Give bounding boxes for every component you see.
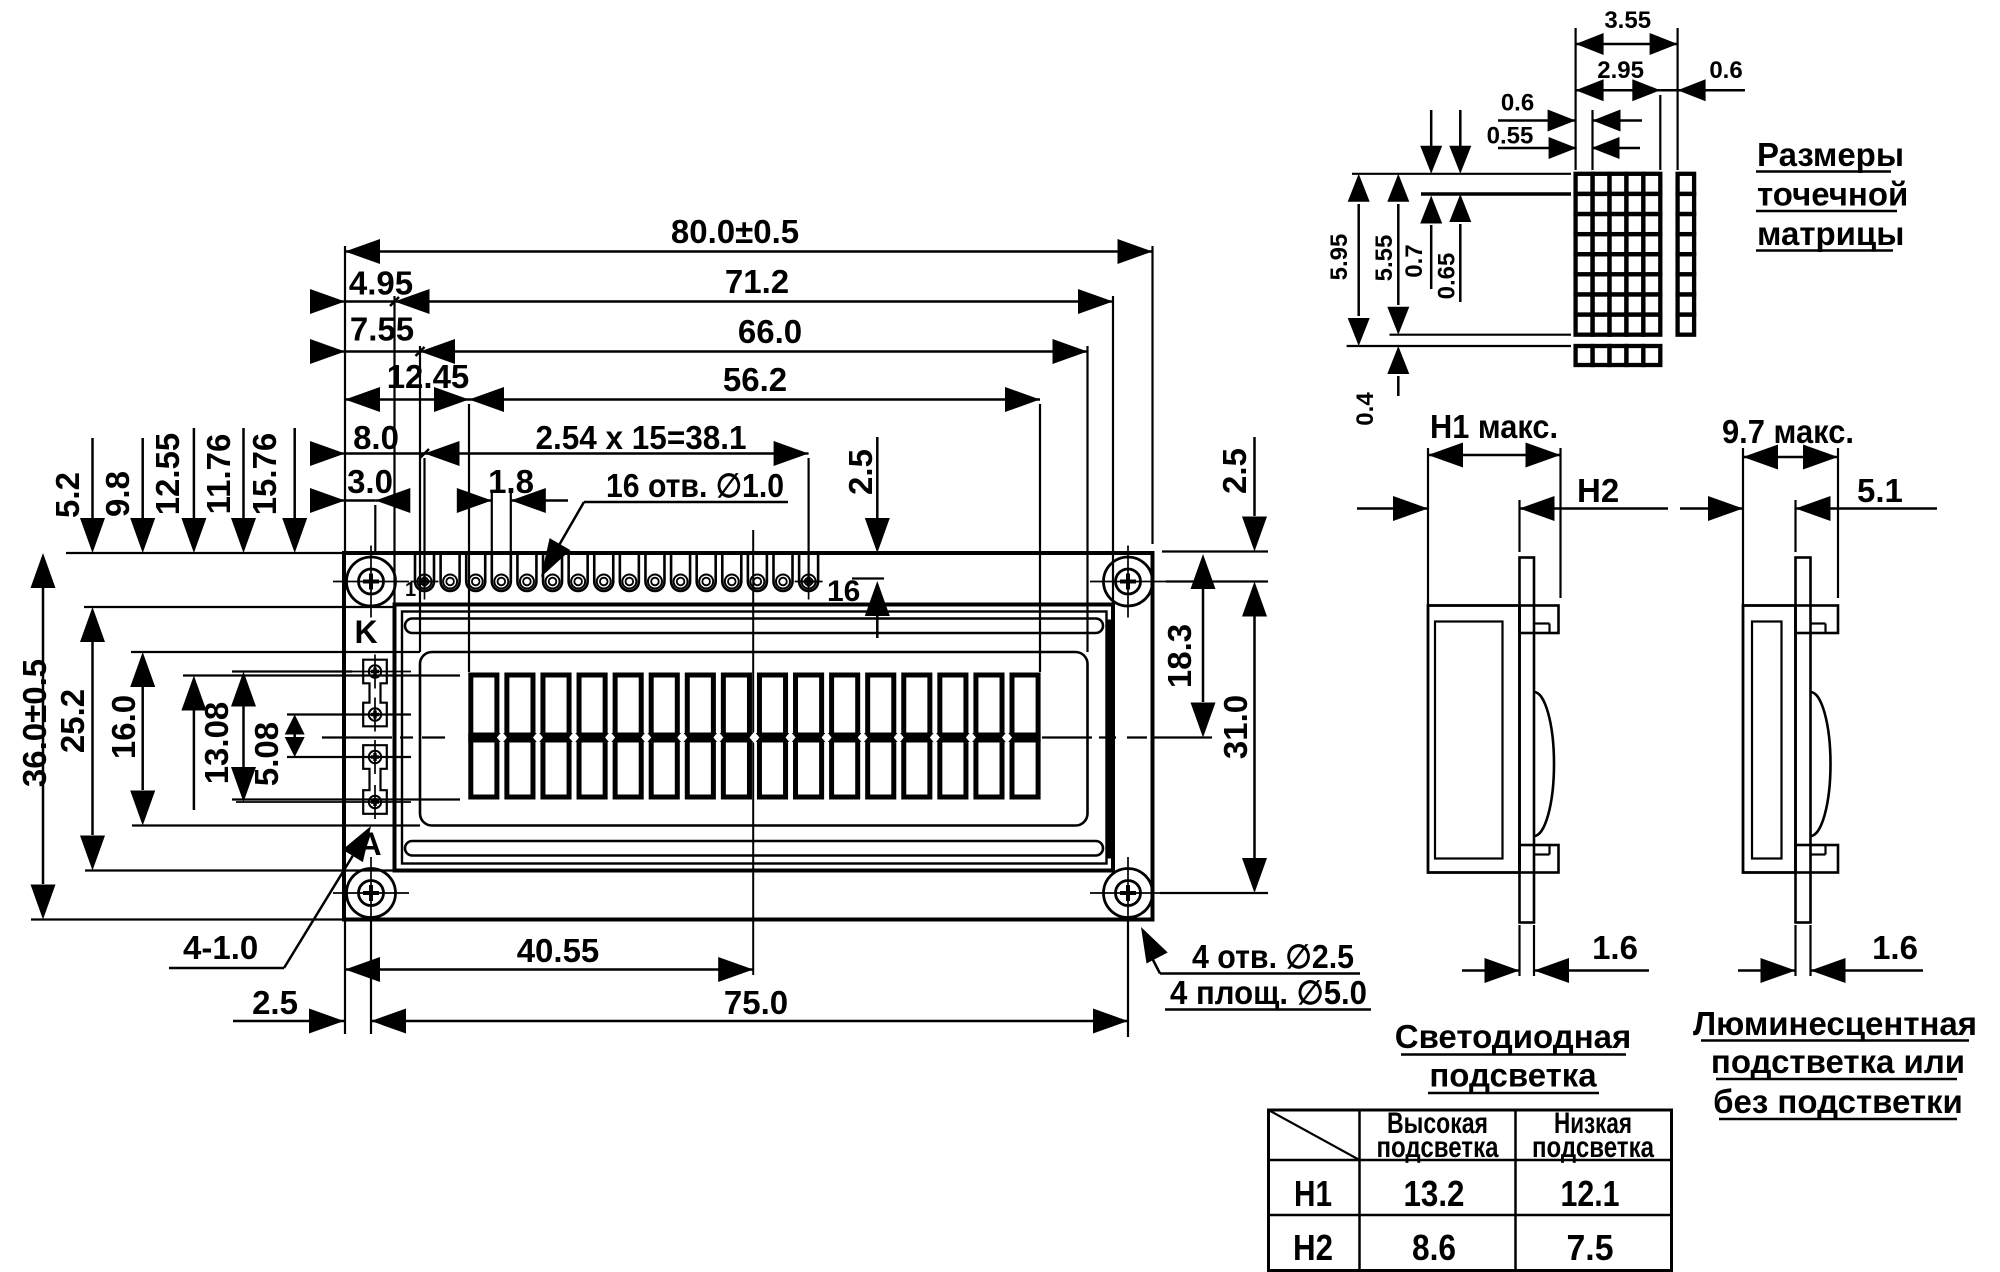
character column 8 row1 block bbox=[723, 675, 749, 735]
pin 11 hole bbox=[674, 575, 688, 589]
side view 1 lens bbox=[1534, 692, 1554, 836]
svg-text:подсветка: подсветка bbox=[1377, 1131, 1499, 1164]
matrix ext line left col bbox=[1574, 28, 1576, 170]
mounting hole top-left crosshair bbox=[333, 581, 409, 583]
ext line chars-right vertical bbox=[1039, 404, 1041, 672]
svg-text:11.76: 11.76 bbox=[200, 434, 237, 515]
ext line row2-bottom left bbox=[232, 798, 460, 800]
ext line pad2 left bbox=[287, 713, 411, 715]
character column 10 row1 block bbox=[796, 675, 822, 735]
inter-row band bbox=[468, 733, 1040, 742]
svg-text:0.65: 0.65 bbox=[1434, 253, 1461, 300]
side view 2 lens bbox=[1811, 692, 1831, 836]
ext line pin1 vertical bbox=[423, 458, 425, 585]
pin 1 finger bbox=[415, 555, 434, 591]
pad 2 circle and cross bbox=[369, 708, 381, 720]
character column 16 row2 block bbox=[1012, 740, 1038, 797]
module body outline bbox=[344, 553, 1153, 920]
matrix dimension 2.95 bbox=[1576, 89, 1661, 92]
svg-text:Светодиодная: Светодиодная bbox=[1395, 1018, 1632, 1055]
side view 2 PCB bbox=[1796, 558, 1811, 923]
bezel inner frame line bbox=[402, 612, 1107, 864]
dimension 1.6 view2 bbox=[1794, 925, 1796, 976]
pin 8 finger bbox=[594, 555, 613, 591]
svg-text:0.6: 0.6 bbox=[1709, 57, 1742, 84]
character column 2 row1 block bbox=[507, 675, 533, 735]
ext line 3.0 right bbox=[374, 505, 376, 553]
character column 5 row1 block bbox=[615, 675, 641, 735]
dimension 56.2 with 12.45 bbox=[345, 398, 469, 401]
pin 10 finger bbox=[645, 555, 664, 591]
ext line pad4 left bbox=[236, 801, 411, 803]
dimension 66.0 with 7.55 bbox=[311, 350, 420, 353]
ext line body-top left bbox=[66, 552, 344, 554]
mounting hole bottom-left crosshair bbox=[333, 892, 409, 894]
dimension 1.6 view1 bbox=[1518, 925, 1520, 976]
character column 5 row2 block bbox=[615, 740, 641, 797]
svg-text:15.76: 15.76 bbox=[246, 433, 283, 516]
svg-text:подстветка или: подстветка или bbox=[1711, 1043, 1965, 1080]
svg-text:9.8: 9.8 bbox=[99, 471, 136, 517]
ext line holes-top right bbox=[1166, 580, 1268, 582]
svg-text:36.0±0.5: 36.0±0.5 bbox=[16, 659, 53, 787]
pad 3 circle and cross bbox=[369, 751, 381, 763]
ext line hole-right bottom bbox=[1127, 922, 1129, 1038]
pin 2 finger bbox=[441, 555, 460, 591]
mounting hole bottom-right pad circle bbox=[1104, 869, 1153, 918]
svg-text:80.0±0.5: 80.0±0.5 bbox=[671, 213, 799, 250]
svg-text:12.55: 12.55 bbox=[149, 433, 186, 516]
ext line body-bottom left bbox=[31, 918, 344, 920]
pin 7 hole bbox=[571, 575, 585, 589]
ext line chars-left vertical bbox=[468, 404, 470, 672]
pin 15 hole bbox=[776, 575, 790, 589]
ext line bezel-left vertical bbox=[393, 296, 395, 605]
table row line 2 bbox=[1269, 1214, 1672, 1217]
matrix dimension 0.6 left bbox=[1498, 119, 1576, 122]
svg-text:4 отв. ∅2.5: 4 отв. ∅2.5 bbox=[1192, 938, 1354, 975]
svg-text:5.08: 5.08 bbox=[248, 722, 285, 786]
svg-text:без подстветки: без подстветки bbox=[1713, 1083, 1963, 1120]
pin 1 hole bbox=[418, 575, 432, 589]
mounting hole bottom-left drill circle bbox=[359, 881, 384, 906]
character column 4 row2 block bbox=[579, 740, 605, 797]
pin 11 finger bbox=[671, 555, 690, 591]
svg-text:подсветка: подсветка bbox=[1429, 1057, 1597, 1094]
svg-text:2.95: 2.95 bbox=[1597, 57, 1644, 84]
svg-text:Размеры: Размеры bbox=[1757, 136, 1904, 173]
mounting hole bottom-left pad circle bbox=[347, 869, 396, 918]
dot matrix adjacent row bbox=[1576, 346, 1593, 365]
pin 1 crosshair bbox=[424, 564, 426, 600]
svg-text:0.4: 0.4 bbox=[1352, 392, 1379, 426]
ext line window-bottom left bbox=[132, 824, 420, 826]
pin 16 finger bbox=[799, 555, 818, 591]
svg-text:4-1.0: 4-1.0 bbox=[183, 929, 258, 966]
svg-text:56.2: 56.2 bbox=[723, 361, 787, 398]
pad1 crosshair extension bbox=[352, 671, 411, 673]
dimension 40.55 bbox=[345, 968, 753, 971]
inter-row gap diamond 8 bbox=[749, 732, 759, 744]
table row line 1 bbox=[1269, 1159, 1672, 1162]
pin 13 hole bbox=[725, 575, 739, 589]
character column 13 row2 block bbox=[904, 740, 930, 797]
inter-row gap diamond 11 bbox=[858, 732, 868, 744]
character column 11 row1 block bbox=[832, 675, 858, 735]
table outer border bbox=[1269, 1110, 1672, 1271]
ext line bezel-top left bbox=[84, 606, 395, 608]
svg-text:5.55: 5.55 bbox=[1371, 235, 1398, 282]
matrix ext line grid right bbox=[1659, 95, 1661, 170]
ext line body-top right bbox=[1162, 550, 1268, 552]
K pad pair dogbone bbox=[363, 660, 387, 727]
character column 7 row2 block bbox=[687, 740, 713, 797]
mounting hole top-left drill circle bbox=[359, 569, 384, 594]
svg-text:Н2: Н2 bbox=[1293, 1227, 1333, 1268]
inter-row gap diamond 9 bbox=[786, 732, 796, 744]
svg-text:16.0: 16.0 bbox=[105, 695, 142, 759]
pin 8 hole bbox=[597, 575, 611, 589]
matrix ext line adjacent col bbox=[1676, 28, 1678, 170]
ext line bezel-right vertical bbox=[1112, 296, 1114, 616]
svg-text:4 площ. ∅5.0: 4 площ. ∅5.0 bbox=[1170, 974, 1367, 1011]
svg-text:0.6: 0.6 bbox=[1501, 90, 1534, 117]
svg-text:3.55: 3.55 bbox=[1604, 7, 1651, 34]
character column 13 row1 block bbox=[904, 675, 930, 735]
character column 3 row2 block bbox=[543, 740, 569, 797]
svg-text:9.7 макс.: 9.7 макс. bbox=[1722, 413, 1854, 450]
pin 16 crosshair bbox=[808, 564, 810, 600]
pin 14 finger bbox=[748, 555, 767, 591]
svg-text:16 отв. ∅1.0: 16 отв. ∅1.0 bbox=[606, 467, 784, 504]
pin 7 finger bbox=[569, 555, 588, 591]
dimension 2.5 bottom bbox=[233, 1020, 344, 1023]
svg-text:K: K bbox=[354, 614, 377, 650]
top reflector bar bbox=[405, 619, 1103, 634]
character column 11 row2 block bbox=[832, 740, 858, 797]
matrix dimension 3.55 bbox=[1576, 43, 1678, 46]
character column 12 row1 block bbox=[868, 675, 894, 735]
bezel outer frame bbox=[395, 605, 1114, 871]
side view 1 top claw bbox=[1520, 606, 1559, 634]
character column 9 row2 block bbox=[759, 740, 785, 797]
side view 1 bottom claw bbox=[1520, 845, 1559, 873]
svg-text:7.5: 7.5 bbox=[1567, 1227, 1614, 1268]
side view 2 bottom claw bbox=[1796, 845, 1839, 873]
dimension 80.0±0.5 bbox=[345, 250, 1153, 253]
inter-row gap diamond 1 bbox=[497, 732, 507, 744]
svg-text:2.5: 2.5 bbox=[1216, 448, 1253, 494]
matrix ext line top row bbox=[1352, 173, 1571, 175]
svg-text:Н1: Н1 bbox=[1294, 1173, 1332, 1214]
ext line pad3 left bbox=[287, 756, 411, 758]
svg-text:7.55: 7.55 bbox=[350, 311, 414, 348]
svg-text:18.3: 18.3 bbox=[1161, 624, 1198, 688]
svg-text:13.08: 13.08 bbox=[198, 702, 235, 785]
character column 14 row2 block bbox=[940, 740, 966, 797]
pin 16 hole bbox=[802, 575, 816, 589]
mounting hole bottom-right drill circle bbox=[1116, 881, 1141, 906]
character column 15 row1 block bbox=[976, 675, 1002, 735]
inter-row gap diamond 13 bbox=[930, 732, 940, 744]
character column 14 row1 block bbox=[940, 675, 966, 735]
svg-text:1.6: 1.6 bbox=[1592, 929, 1638, 966]
matrix ext line col2 bbox=[1591, 110, 1593, 170]
dot matrix main grid bbox=[1576, 174, 1593, 194]
ext line pin16 vertical bbox=[808, 458, 810, 585]
pin 9 hole bbox=[622, 575, 636, 589]
matrix ext line row2 thick bbox=[1421, 192, 1571, 196]
side view 2 frame outer bbox=[1743, 606, 1796, 873]
inter-row gap diamond 7 bbox=[713, 732, 723, 744]
mounting hole top-right crosshair bbox=[1090, 581, 1166, 583]
character column 15 row2 block bbox=[976, 740, 1002, 797]
svg-text:40.55: 40.55 bbox=[517, 932, 600, 969]
pin 3 hole bbox=[469, 575, 483, 589]
svg-text:2.5: 2.5 bbox=[842, 449, 879, 495]
ext line body-left bottom bbox=[344, 922, 346, 1035]
mounting hole bottom-right crosshair bbox=[1090, 892, 1166, 894]
pin 5 finger bbox=[517, 555, 536, 591]
pin 4 finger bbox=[492, 555, 511, 591]
svg-text:3.0: 3.0 bbox=[347, 463, 393, 500]
inter-row gap diamond 2 bbox=[533, 732, 543, 744]
character column 6 row1 block bbox=[651, 675, 677, 735]
ext line pad1 left bbox=[232, 670, 352, 672]
pin 12 hole bbox=[699, 575, 713, 589]
svg-text:0.7: 0.7 bbox=[1401, 244, 1428, 277]
character column 16 row1 block bbox=[1012, 675, 1038, 735]
svg-text:75.0: 75.0 bbox=[724, 984, 788, 1021]
character column 3 row1 block bbox=[543, 675, 569, 735]
pin 2 hole bbox=[443, 575, 457, 589]
pad 1 circle and cross bbox=[369, 665, 381, 677]
character column 6 row2 block bbox=[651, 740, 677, 797]
pad 4 circle and cross bbox=[369, 796, 381, 808]
character column 7 row1 block bbox=[687, 675, 713, 735]
svg-text:5.95: 5.95 bbox=[1326, 234, 1353, 281]
ext line holes-bottom right bbox=[1160, 892, 1268, 894]
dimension 2.54 x 15=38.1 with 8.0 bbox=[311, 452, 425, 455]
svg-text:Люминесцентная: Люминесцентная bbox=[1693, 1005, 1977, 1042]
ext line body-right vertical bbox=[1151, 246, 1153, 544]
inter-row gap diamond 14 bbox=[966, 732, 976, 744]
pin 6 hole bbox=[546, 575, 560, 589]
side view 1 PCB bbox=[1520, 558, 1535, 923]
centerline vertical bbox=[752, 530, 754, 975]
matrix ext line adjacent row top bbox=[1347, 345, 1571, 347]
svg-text:1: 1 bbox=[405, 579, 416, 601]
character column 4 row1 block bbox=[579, 675, 605, 735]
table header diagonal bbox=[1269, 1110, 1360, 1160]
A pad pair dogbone bbox=[363, 745, 387, 814]
dimension 1.8 bbox=[458, 499, 492, 502]
svg-text:точечной: точечной bbox=[1757, 176, 1908, 213]
svg-text:2.5: 2.5 bbox=[252, 984, 298, 1021]
LCD glass right edge bbox=[1108, 620, 1114, 859]
side view 1 frame inner bbox=[1435, 622, 1503, 859]
inter-row gap diamond 5 bbox=[641, 732, 651, 744]
pin 3 finger bbox=[466, 555, 485, 591]
mounting hole top-right drill circle bbox=[1116, 569, 1141, 594]
ext line window-left vertical bbox=[419, 346, 421, 652]
svg-text:71.2: 71.2 bbox=[725, 263, 789, 300]
pin 12 finger bbox=[697, 555, 716, 591]
matrix dimension 0.6 right bbox=[1660, 89, 1745, 92]
table column line 1 bbox=[1358, 1110, 1361, 1271]
svg-text:5.2: 5.2 bbox=[49, 472, 86, 518]
matrix ext line grid bottom bbox=[1390, 334, 1572, 336]
character column 8 row2 block bbox=[723, 740, 749, 797]
svg-text:подсветка: подсветка bbox=[1532, 1131, 1654, 1164]
bottom reflector bar bbox=[405, 841, 1103, 856]
pin 5 hole bbox=[520, 575, 534, 589]
dimension 71.2 with 4.95 bbox=[311, 300, 395, 303]
character column 12 row2 block bbox=[868, 740, 894, 797]
svg-text:66.0: 66.0 bbox=[738, 313, 802, 350]
mounting hole top-right pad circle bbox=[1104, 557, 1153, 606]
mounting hole top-left pad circle bbox=[347, 557, 396, 606]
character column 2 row2 block bbox=[507, 740, 533, 797]
inter-row gap diamond 3 bbox=[569, 732, 579, 744]
pin 6 finger bbox=[543, 555, 562, 591]
character column 9 row1 block bbox=[759, 675, 785, 735]
ext line window-right vertical bbox=[1086, 346, 1088, 652]
svg-text:8.0: 8.0 bbox=[353, 419, 399, 456]
dot matrix adjacent column bbox=[1678, 174, 1695, 194]
svg-text:4.95: 4.95 bbox=[349, 265, 413, 302]
svg-text:2.54 x 15=38.1: 2.54 x 15=38.1 bbox=[536, 419, 747, 456]
dimension 75.0 bbox=[371, 1020, 1128, 1023]
ext line display-center right dashes bbox=[1042, 736, 1092, 738]
side view 2 frame inner bbox=[1752, 622, 1782, 859]
inter-row gap diamond 12 bbox=[894, 732, 904, 744]
display window bbox=[420, 652, 1088, 826]
pin 10 hole bbox=[648, 575, 662, 589]
svg-text:8.6: 8.6 bbox=[1412, 1227, 1456, 1268]
character column 1 row2 block bbox=[471, 740, 497, 797]
side view 2 top claw bbox=[1796, 606, 1839, 634]
pin 14 hole bbox=[750, 575, 764, 589]
12.55 lower arrow bbox=[181, 676, 206, 711]
ext line body-left vertical bbox=[344, 246, 346, 553]
pin 9 finger bbox=[620, 555, 639, 591]
inter-row gap diamond 4 bbox=[605, 732, 615, 744]
ext line display-center left dashes bbox=[322, 736, 392, 738]
svg-text:Н2: Н2 bbox=[1577, 472, 1619, 509]
table column line 2 bbox=[1514, 1110, 1517, 1271]
svg-text:Н1 макс.: Н1 макс. bbox=[1430, 408, 1558, 445]
svg-text:12.1: 12.1 bbox=[1561, 1173, 1620, 1214]
side view 1 frame outer bbox=[1428, 606, 1520, 873]
svg-text:5.1: 5.1 bbox=[1857, 472, 1903, 509]
matrix dimension 0.55 bbox=[1498, 147, 1577, 150]
svg-text:31.0: 31.0 bbox=[1217, 695, 1254, 759]
svg-text:25.2: 25.2 bbox=[54, 689, 91, 753]
svg-text:матрицы: матрицы bbox=[1757, 215, 1904, 252]
ext line row1-top left bbox=[183, 674, 460, 676]
inter-row gap diamond 15 bbox=[1002, 732, 1012, 744]
svg-text:12.45: 12.45 bbox=[387, 358, 470, 395]
pin 4 hole bbox=[494, 575, 508, 589]
inter-row gap diamond 6 bbox=[677, 732, 687, 744]
pin 13 finger bbox=[722, 555, 741, 591]
character column 1 row1 block bbox=[471, 675, 497, 735]
pin 15 finger bbox=[773, 555, 792, 591]
svg-text:1.8: 1.8 bbox=[488, 463, 534, 500]
dimension 3.0 bbox=[311, 499, 375, 502]
svg-text:1.6: 1.6 bbox=[1872, 929, 1918, 966]
ext line window-top left bbox=[131, 651, 420, 653]
svg-text:0.55: 0.55 bbox=[1487, 123, 1534, 150]
ext line hole-left bottom bbox=[370, 922, 372, 1035]
character column 10 row2 block bbox=[796, 740, 822, 797]
svg-text:13.2: 13.2 bbox=[1404, 1173, 1465, 1214]
inter-row gap diamond 10 bbox=[822, 732, 832, 744]
ext line bezel-bottom left bbox=[85, 869, 395, 871]
